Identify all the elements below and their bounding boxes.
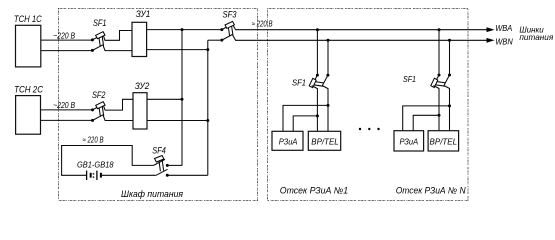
junction: ЗУ2 + output on riser [181,98,184,101]
junction: tap on WBN (compartment 1) [327,39,330,42]
box ЗУ2 (charger 2) [133,93,147,129]
junction: ЗУ2 - line on riser [206,119,209,122]
svg-text:ЗУ1: ЗУ1 [136,9,151,19]
wire: riser - to SF3 pole 2 [208,39,221,41]
wire: branch to РЗиА input 1 (compartment 1) [283,105,328,131]
wire: branch to РЗиА input 2 (compartment N) [413,115,439,130]
svg-text:ВР/TEL: ВР/TEL [311,137,339,147]
circuit breaker SF1 of compartment N (2-pole, vertical) [431,74,451,88]
svg-text:~220 В: ~220 В [53,101,76,110]
junction: РЗиА branch 1 (compartment 1) [327,104,330,107]
wire: ТСН 1С output L to SF1 pole 1 [41,39,91,41]
svg-text:SF4: SF4 [152,145,166,155]
wire: vertical riser + (links ЗУ1, ЗУ2, SF4) [181,30,183,166]
box ТСН 1С (station service transformer 1) [16,25,41,67]
svg-text:GB1-GB18: GB1-GB18 [77,159,114,169]
enclosure: Отсек РЗиА №1...№N (relay compartments, dashed border) [268,9,469,201]
junction: tap on WBN (compartment N) [448,39,451,42]
wire: SF1 pole 1 down to ВР/TEL (compartment 1) [312,86,318,132]
junction: РЗиА branch 1 (compartment N) [448,104,451,107]
arrowhead bus WBN [487,38,495,43]
wire: ТСН 2С output L to SF2 pole 1 [41,109,92,111]
svg-text:SF1: SF1 [93,18,107,28]
junction: riser + on ЗУ1 output line [181,28,184,31]
wire: ЗУ2 output + to riser + [147,98,182,100]
wire: SF1 pole 2 output to ЗУ1 input 2 [103,45,132,51]
wire: SF2 pole 1 output to ЗУ2 input 1 [103,99,133,110]
wire: SF1 pole 2 down to ВР/TEL (compartment N) [444,86,450,131]
svg-text:Шкаф питания: Шкаф питания [121,189,183,199]
junction: riser - on ЗУ1 output line [206,48,209,51]
box ВР/TEL (power supply unit, compartment N) [428,131,459,151]
circuit breaker SF4 (2-pole, battery switch) [154,156,169,177]
battery GB1-GB18 [87,171,102,180]
wire: SF2 pole 2 output to riser - (passes behind ЗУ2) [103,115,208,121]
wire: WBA tap down to SF1 (compartment 1) [316,30,318,74]
svg-text:ВР/TEL: ВР/TEL [430,137,458,147]
wire: ЗУ1 output + to SF3 pole 1 (node +) [147,29,221,31]
svg-text:ЗУ2: ЗУ2 [135,81,150,91]
junction: tap on WBA (compartment N) [438,28,441,31]
junction: tap on WBA (compartment 1) [316,28,319,31]
ellipsis between compartments [359,128,380,130]
svg-text:WBA: WBA [495,23,512,33]
wire: SF1 pole 2 down to ВР/TEL (compartment 1) [322,86,328,132]
wire: ЗУ1 output - to riser [147,49,208,51]
svg-text:SF1: SF1 [403,74,416,84]
wire: vertical riser - (links ЗУ1, ЗУ2, battery circuit) [207,40,209,175]
box ВР/TEL (power supply unit, compartment 1) [308,131,340,150]
svg-text:Отсек РЗиА № N: Отсек РЗиА № N [396,186,466,196]
wire: WBN tap down to SF1 (compartment 1) [327,40,329,73]
box ТСН 2С (station service transformer 2) [16,96,41,135]
box РЗиА (protection+automation, compartment 1) [272,131,303,150]
circuit breaker SF1 of compartment 1 (2-pole, vertical) [309,74,329,88]
svg-text:≈ 220 В: ≈ 220 В [82,135,104,144]
wire: SF1 pole 1 output to ЗУ1 input 1 [103,31,132,41]
circuit breaker SF1 (2-pole) [91,32,105,52]
svg-text:~220 В: ~220 В [53,32,76,41]
circuit breaker SF2 (2-pole) [91,102,105,122]
svg-text:питания: питания [519,32,553,42]
bus WBN (- supply busbar) [232,34,488,40]
svg-text:SF1: SF1 [292,77,306,87]
svg-text:РЗиА: РЗиА [399,137,418,147]
svg-text:SF2: SF2 [92,90,106,100]
arrowhead bus WBA [487,27,495,32]
enclosure: Шкаф питания (power-supply cabinet, dashed border) [59,9,258,201]
wire: branch to РЗиА input 2 (compartment 1) [293,116,317,131]
svg-text:РЗиА: РЗиА [279,137,298,147]
bus WBA (+ supply busbar) [232,24,488,30]
junction: РЗиА branch 2 (compartment 1) [316,114,319,117]
wire: WBN tap down to SF1 (compartment N) [449,40,451,73]
box РЗиА (protection+automation, compartment N) [394,131,424,151]
box ЗУ1 (charger 1) [132,22,147,56]
wire: SF4 pole 1 output to riser + [167,164,182,166]
svg-text:WBN: WBN [495,36,513,46]
junction: РЗиА branch 2 (compartment N) [438,114,441,117]
wire: SF1 pole 1 down to ВР/TEL (compartment N) [433,86,439,131]
svg-text:SF3: SF3 [223,9,237,19]
wire: ТСН 1С output N to SF1 pole 2 [41,50,91,52]
wire: branch to РЗиА input 1 (compartment N) [403,106,450,131]
wire: ТСН 2С output N to SF2 pole 2 [41,119,92,121]
svg-text:ТСН 2С: ТСН 2С [14,84,43,94]
svg-text:ТСН 1С: ТСН 1С [14,14,42,24]
svg-text:Отсек РЗиА №1: Отсек РЗиА №1 [280,186,348,196]
wire: battery loop top (≈220 В circuit) to SF4 pole 1 [62,146,154,176]
circuit breaker SF3 (2-pole) [220,21,234,41]
wire: SF4 pole 2 output to riser - [167,174,208,176]
svg-text:≈ 220 В: ≈ 220 В [252,19,273,28]
wire: WBA tap down to SF1 (compartment N) [438,30,440,74]
wire: battery + to SF4 pole 2 [101,174,156,176]
